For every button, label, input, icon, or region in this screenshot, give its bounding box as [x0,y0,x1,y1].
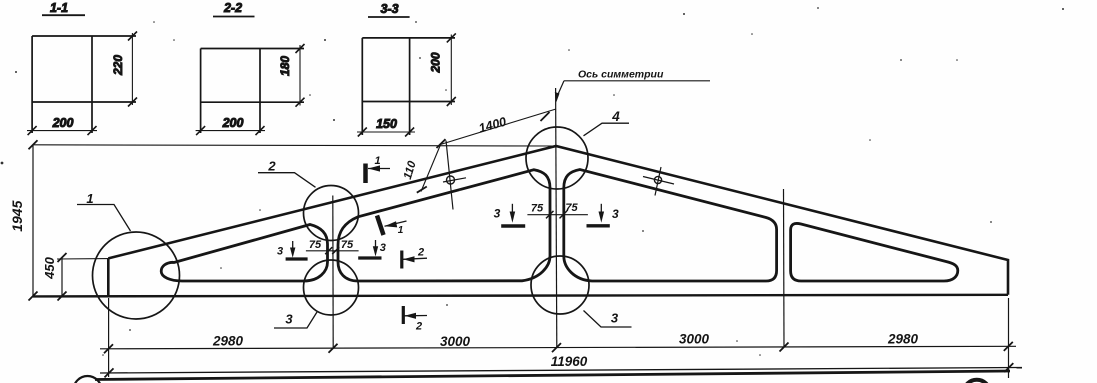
section 1-1 title [42,1,85,15]
detail circle 1 [93,232,180,319]
dim 1400 sloped [437,109,557,148]
dim row2 ticks [105,363,1014,377]
svg-text:200: 200 [429,52,443,73]
axis of symmetry label [555,69,710,103]
section 3-3 title [368,2,410,17]
opening D (right panel void) [791,223,958,281]
dim 450 vertical [42,253,108,301]
section mark 2 upper [402,247,427,269]
svg-text:3: 3 [611,311,619,326]
svg-text:2: 2 [417,247,424,259]
svg-text:3: 3 [380,242,386,254]
section mark 3 left (post1) [277,241,308,259]
truss bottom face + left extension line [33,295,1008,297]
detail circle 3 (post1 bottom) [304,260,359,315]
detail circle 4 (apex) [526,127,588,189]
svg-text:200: 200 [222,116,244,130]
section 2-2 dim 200 [196,116,265,135]
svg-text:1: 1 [86,191,93,206]
left end extension line [108,298,110,377]
svg-text:11960: 11960 [551,354,588,369]
section 3-3 square [362,38,455,135]
truss outline [108,146,1008,296]
svg-text:2980: 2980 [887,332,919,347]
detail circle 2 [304,186,359,241]
section mark 3 right (center) [587,204,619,226]
svg-text:2: 2 [267,159,276,174]
svg-text:2980: 2980 [212,333,244,348]
section mark 1 lower [377,216,407,237]
svg-text:220: 220 [111,55,125,76]
svg-text:1-1: 1-1 [50,1,68,15]
left anchor crosshair [443,141,466,210]
section 2-2 square [201,49,304,134]
section mark 3 right (post1) [358,240,386,258]
detail label 3b [584,311,632,328]
section mark 1 upper [366,155,391,183]
section mark 2 lower [403,306,427,333]
svg-text:4: 4 [611,109,620,124]
dim 75|75 (post1) [306,239,359,254]
svg-text:3000: 3000 [679,332,710,347]
section mark 3 left (center) [494,204,526,226]
svg-text:1: 1 [398,225,404,236]
dim row1 texts [212,332,919,350]
section 2-2 dim 180 [278,44,305,107]
section 1-1 dim 200 [27,116,97,135]
section 2-2 title [213,1,255,17]
section 1-1 dim 220 [111,32,137,107]
svg-text:150: 150 [376,117,397,131]
svg-text:1: 1 [374,155,380,167]
svg-text:75: 75 [531,203,544,215]
detail label 3 (post1 bottom) [274,312,317,329]
bottom right partial circle [963,380,990,383]
svg-text:3: 3 [612,207,619,221]
svg-text:75: 75 [309,239,322,251]
detail circle 3b (center bottom) [531,256,589,314]
dim row1 line [100,346,1016,349]
detail label 2 [258,159,316,188]
right end extension line [1008,298,1010,378]
opening C (third panel void) [564,170,777,282]
svg-text:450: 450 [42,256,57,279]
svg-text:2-2: 2-2 [223,1,242,15]
svg-text:180: 180 [278,56,292,76]
section 1-1 square [32,36,136,133]
svg-text:75: 75 [341,239,354,251]
section 3-3 dim 200 [429,33,456,106]
svg-text:Ось симметрии: Ось симметрии [578,69,664,81]
svg-text:3: 3 [285,312,293,327]
centerline axis of symmetry [556,88,557,348]
bottom border thick line [95,371,1010,380]
detail label 1 [77,191,131,231]
svg-text:1945: 1945 [9,200,25,231]
dim 1945 vertical [9,140,38,300]
right anchor crosshair [643,167,674,196]
svg-text:200: 200 [52,116,74,130]
svg-text:3-3: 3-3 [380,2,398,16]
opening A (left panel void) [161,225,327,282]
dim row1 ticks [104,342,1013,353]
section 3-3 dim 150 [357,117,415,137]
svg-text:3000: 3000 [440,334,471,349]
post 3 centerline [783,189,786,347]
dim 110 sloped [402,144,441,193]
apex level extension line [33,145,556,146]
opening B (second panel void) [338,170,550,281]
bottom left partial circle [74,376,102,383]
svg-text:3: 3 [277,246,283,258]
dim row2 line [100,368,1022,374]
dim 75|75 (center) [527,202,588,218]
svg-text:3: 3 [494,207,501,221]
post 1 centerline [332,196,334,349]
svg-text:75: 75 [565,202,578,214]
svg-text:2: 2 [415,321,422,333]
detail label 4 [584,109,630,136]
